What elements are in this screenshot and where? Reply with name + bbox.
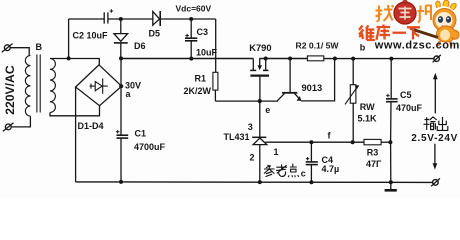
output arrow up <box>433 73 438 114</box>
node dot D6 top <box>119 17 123 21</box>
wire bridge left corner to bottom rail <box>75 87 77 182</box>
node dot C1 bottom <box>119 180 123 184</box>
svg-text:10uF: 10uF <box>196 48 218 58</box>
capacitor C1 <box>116 130 128 182</box>
svg-text:4700uF: 4700uF <box>134 142 166 152</box>
watermark 维库一下 <box>359 25 420 41</box>
svg-text:www.dzsc.com: www.dzsc.com <box>374 40 460 52</box>
svg-text:2K/2W: 2K/2W <box>184 86 212 96</box>
node dot C3 top <box>189 17 193 21</box>
wire top rail left segment <box>69 18 105 20</box>
bottom rail <box>76 181 433 184</box>
wire from J2 to primary bottom <box>11 116 30 127</box>
capacitor C4 <box>306 142 318 182</box>
svg-text:D1-D4: D1-D4 <box>78 121 104 131</box>
output terminal top right <box>433 55 441 62</box>
label 输出 (output) <box>424 117 448 131</box>
svg-text:9013: 9013 <box>302 83 323 93</box>
svg-text:b: b <box>360 42 366 52</box>
svg-text:R1: R1 <box>195 74 207 84</box>
diode D5 <box>153 11 160 26</box>
svg-text:4.7µ: 4.7µ <box>322 164 340 174</box>
node dot RW bottom f-wire <box>351 140 355 144</box>
bridge rectifier D1-D4 diamond <box>76 65 122 106</box>
wire main positive vertical x121 <box>120 58 122 134</box>
node dot mosfet source on rail <box>264 57 268 61</box>
transformer core <box>37 55 40 113</box>
bridge inner diode <box>90 78 108 93</box>
svg-text:f: f <box>328 131 332 141</box>
svg-text:Vdc=60V: Vdc=60V <box>176 4 212 14</box>
wire e horizontal <box>215 100 278 102</box>
transformer B secondary winding <box>50 59 55 113</box>
svg-text:D6: D6 <box>134 41 146 51</box>
svg-text:C1: C1 <box>135 128 147 138</box>
svg-text:R2 0.1/ 5W: R2 0.1/ 5W <box>296 40 340 50</box>
wire 9013 emitter return <box>301 59 335 101</box>
svg-text:5.1K: 5.1K <box>358 114 378 124</box>
wire R3 right to C5 bottom junction <box>381 141 391 143</box>
diode D6 <box>114 19 128 58</box>
svg-text:C5: C5 <box>400 90 412 100</box>
svg-text:c: c <box>301 169 306 179</box>
svg-text:a: a <box>126 89 132 99</box>
svg-text:RW: RW <box>360 102 375 112</box>
node dot R3/C5/ground junction <box>388 140 392 144</box>
main rail y58.5 left segment <box>121 58 253 60</box>
wire f horizontal <box>311 141 364 143</box>
node dot e <box>258 99 262 103</box>
svg-text:D5: D5 <box>149 29 161 39</box>
node dot C5 top <box>389 57 393 61</box>
capacitor C3 <box>185 19 197 59</box>
terminal J2 bottom-left AC input <box>3 123 14 132</box>
resistor R3 <box>364 139 381 144</box>
output terminal bottom right <box>431 178 440 186</box>
svg-text:2: 2 <box>250 153 255 163</box>
svg-text:K790: K790 <box>249 43 271 53</box>
svg-text:TL431: TL431 <box>224 132 250 142</box>
node dot RW top <box>351 57 355 61</box>
mosfet K790 <box>250 59 269 102</box>
wire junction down to bottom rail <box>390 142 392 182</box>
wire top rail C2 to D5 <box>108 18 153 20</box>
label 参考点 (reference point) <box>264 164 299 178</box>
svg-text:1: 1 <box>274 147 279 157</box>
transformer B primary winding <box>25 56 30 117</box>
svg-text:3: 3 <box>248 122 253 132</box>
output arrow down <box>433 144 438 170</box>
svg-text:47Γ: 47Γ <box>366 159 382 169</box>
node dot emitter return on rail <box>333 57 337 61</box>
node dot a bridge plus output <box>119 84 123 88</box>
node dot C4 bottom <box>309 180 313 184</box>
svg-text:C2 10uF: C2 10uF <box>73 31 109 41</box>
svg-text:2.5V-24V: 2.5V-24V <box>411 133 458 144</box>
main rail y58.6 right segment <box>324 58 434 60</box>
node dot secondary/C2 junction <box>67 56 71 60</box>
node dot ground junction <box>389 180 393 184</box>
capacitor C5 <box>386 59 398 143</box>
watermark logo 找芯片 <box>376 1 432 25</box>
main rail y58.5 mid segment <box>259 58 307 60</box>
potentiometer RW <box>345 59 359 143</box>
svg-text:470uF: 470uF <box>396 103 423 113</box>
wire top rail D5 to corner <box>160 18 216 20</box>
wire secondary top to bridge <box>50 59 99 65</box>
resistor R1 <box>213 72 218 90</box>
svg-text:e: e <box>265 105 270 115</box>
wire from J1 to primary top <box>10 48 29 56</box>
watermark mascot <box>410 0 459 46</box>
node dot C3 bottom <box>189 57 193 61</box>
node dot C4 top f-wire <box>309 140 313 144</box>
transistor Q1 9013 <box>277 59 301 101</box>
node dot 9013 base on rail <box>288 57 292 61</box>
ground symbol <box>385 182 397 190</box>
TL431 U1 <box>252 101 311 182</box>
wire vdc corner down to rail <box>215 19 217 72</box>
resistor R2 <box>307 56 323 61</box>
terminal J1 top-left AC input <box>2 44 13 53</box>
svg-text:R3: R3 <box>367 148 379 158</box>
capacitor C2 <box>104 9 113 23</box>
node dot D6 bottom rail start <box>119 56 123 60</box>
node dot TL431 anode bottom <box>258 180 262 184</box>
svg-text:B: B <box>36 42 43 52</box>
wire R1 bottom to e-wire <box>214 90 216 101</box>
wire secondary bottom to bridge bottom corner <box>50 106 100 116</box>
wire C2 branch vertical <box>68 19 70 58</box>
svg-text:C3: C3 <box>197 27 209 37</box>
svg-text:220V/AC: 220V/AC <box>3 65 17 115</box>
